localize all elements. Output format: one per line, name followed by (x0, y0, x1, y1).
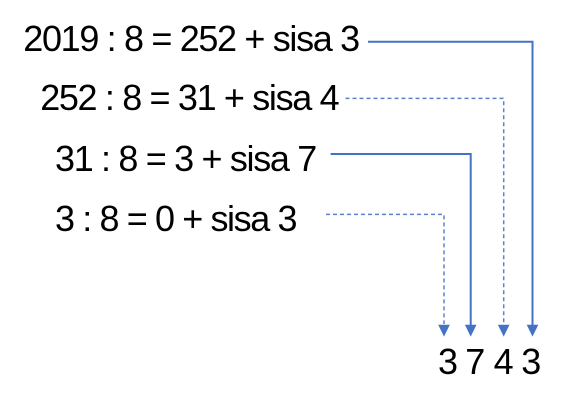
result digit 3 (from line 4 remainder) (438, 344, 458, 380)
connector arrow 4 (dashed) from "sisa 3" line 4 to first result digit 3 (326, 214, 450, 336)
connector arrow 3 (solid) from "sisa 7" line 3 to result digit 7 (331, 154, 477, 337)
equation line 1: 2019 : 8 = 252 + sisa 3 (23, 21, 358, 57)
result digit 7 (from line 3 remainder) (465, 344, 485, 380)
equation line 3: 31 : 8 = 3 + sisa 7 (55, 141, 316, 177)
connector arrow 1 (solid) from "sisa 3" line 1 to last result digit 3 (368, 42, 538, 337)
equation line 2: 252 : 8 = 31 + sisa 4 (40, 80, 338, 116)
result digit 3 (from line 1 remainder) (521, 344, 541, 380)
result digit 4 (from line 2 remainder) (494, 344, 514, 380)
equation line 4: 3 : 8 = 0 + sisa 3 (55, 201, 296, 237)
connector arrow 2 (dashed) from "sisa 4" line 2 to result digit 4 (346, 98, 510, 336)
